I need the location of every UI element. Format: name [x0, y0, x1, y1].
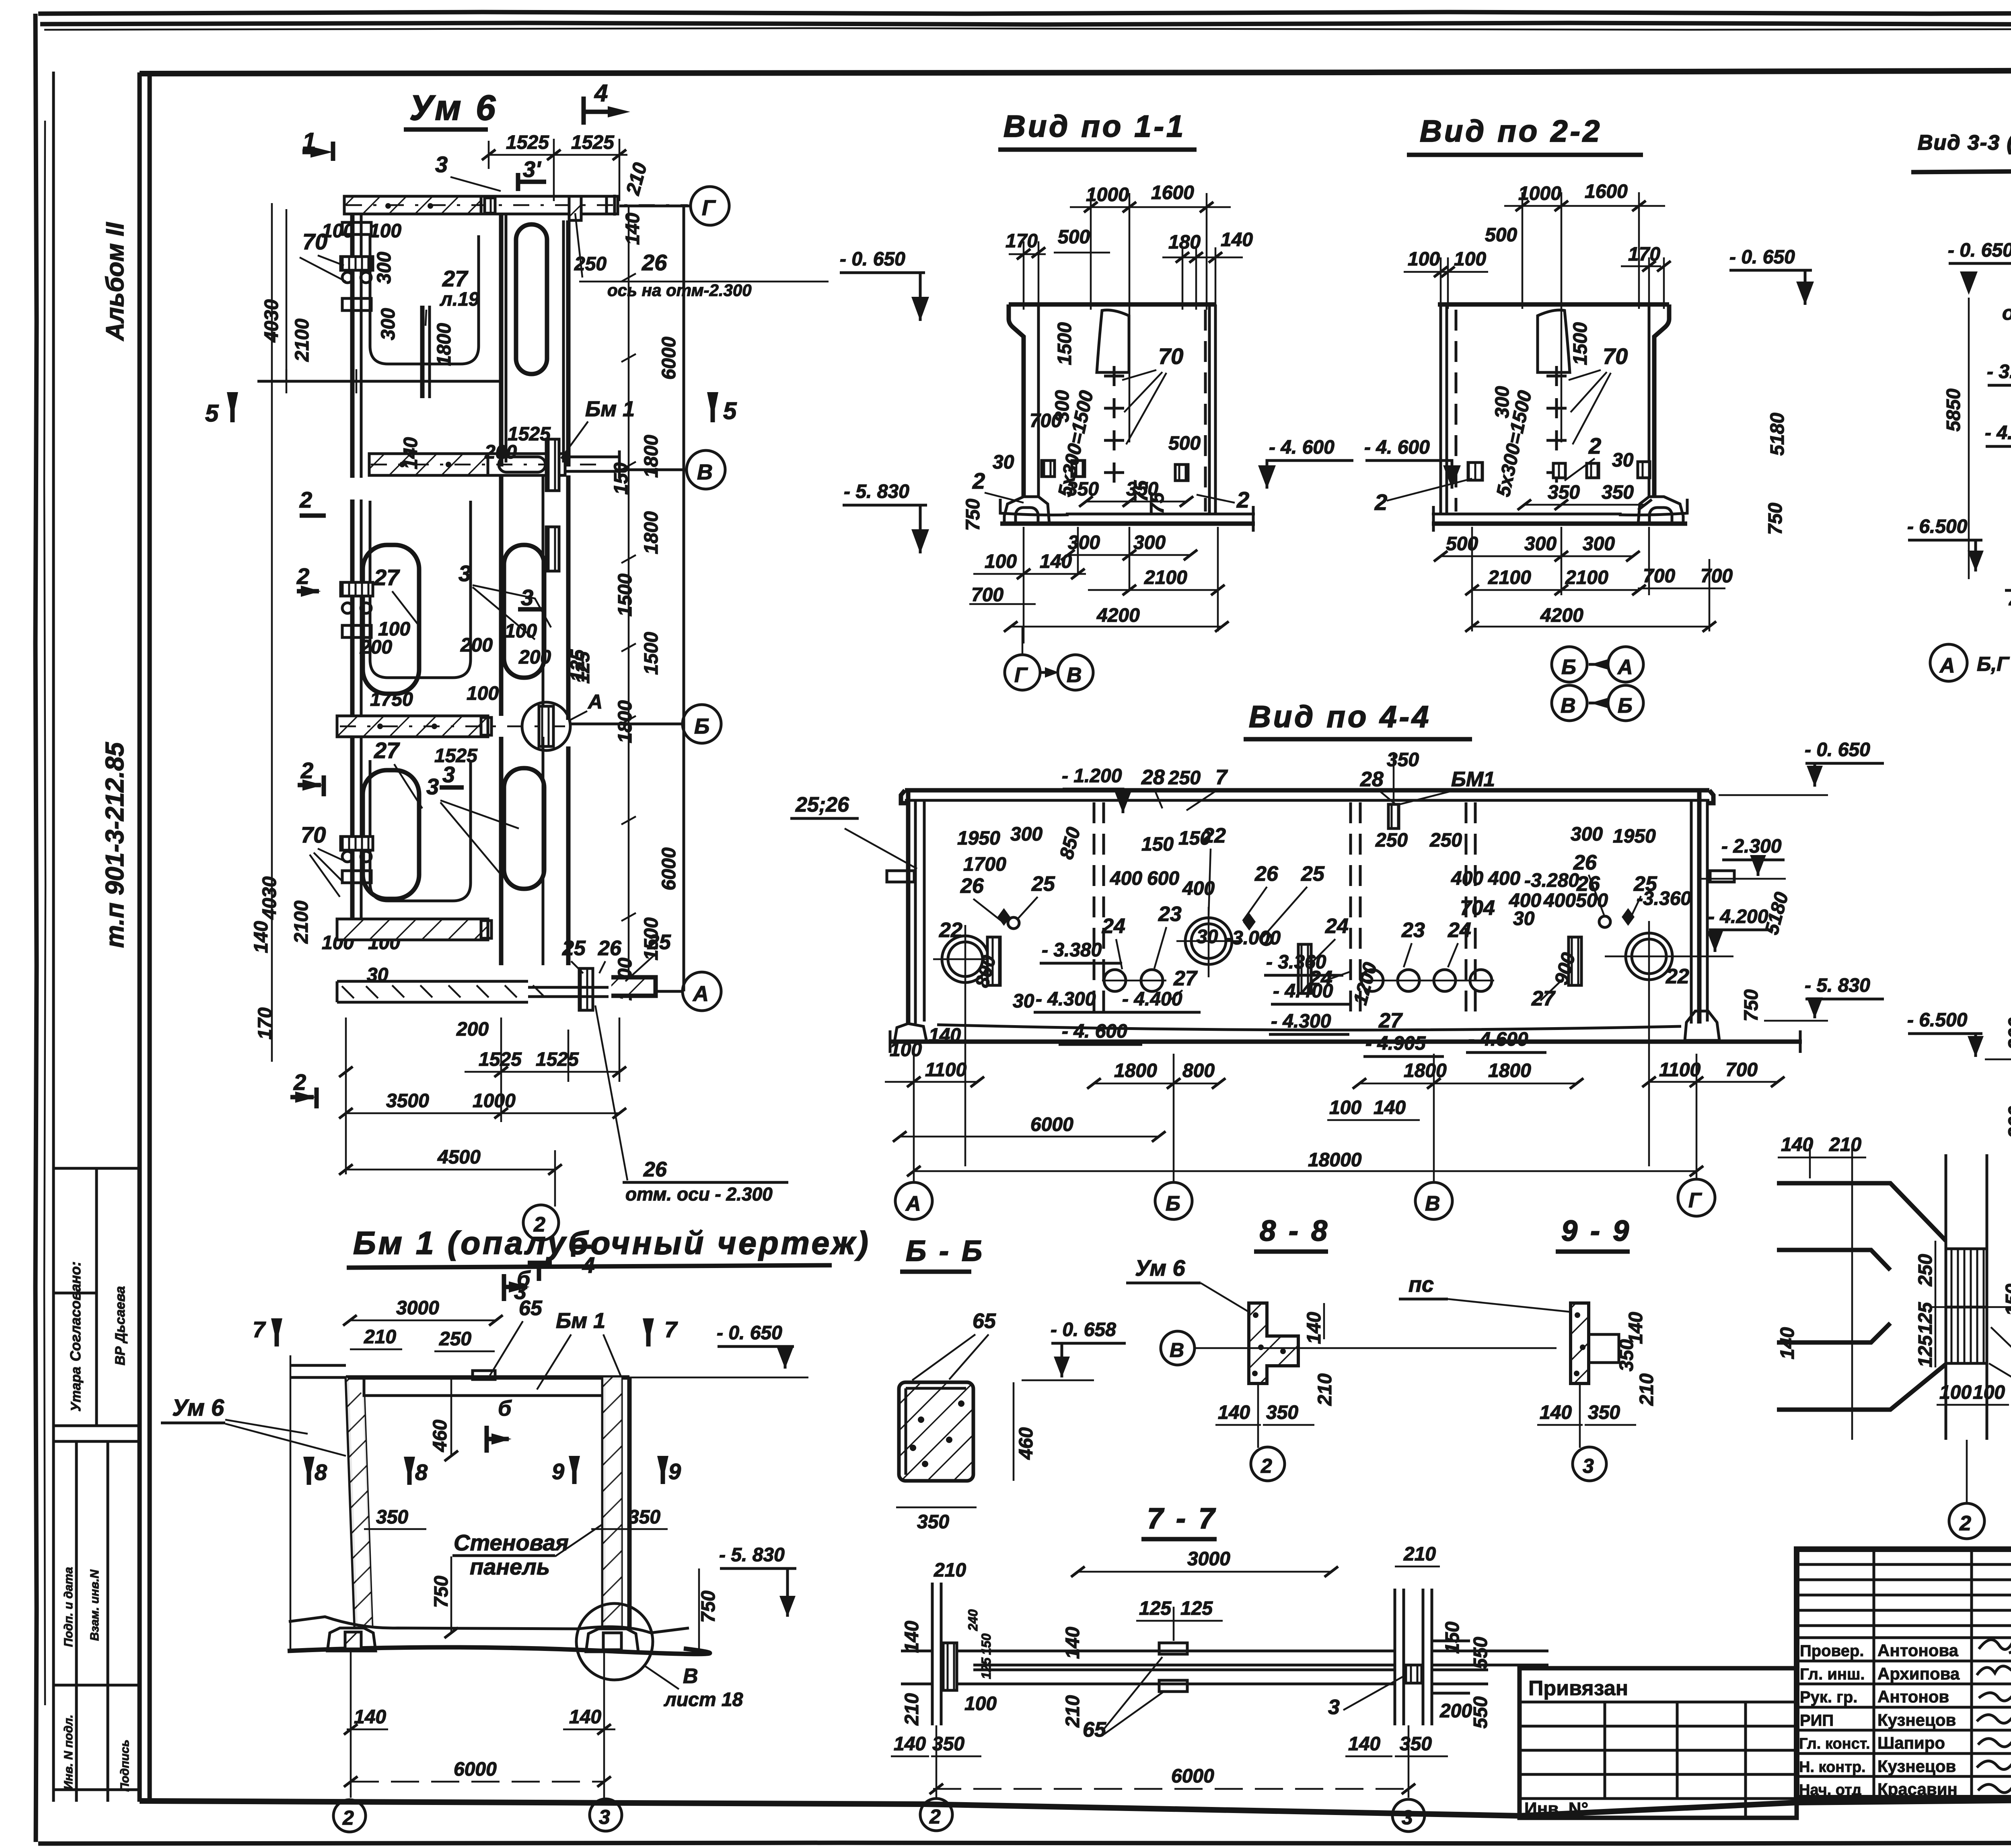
svg-text:Г: Г: [702, 196, 716, 220]
right wall dashed + solid: [1204, 310, 1207, 512]
svg-text:140: 140: [569, 1706, 601, 1728]
svg-text:500: 500: [1058, 226, 1090, 248]
svg-text:2: 2: [293, 1069, 306, 1095]
vertical channel lines: [1945, 1154, 1947, 1440]
svg-text:3000: 3000: [1187, 1548, 1230, 1570]
right end wall: [1697, 790, 1702, 1024]
svg-text:4030: 4030: [259, 876, 280, 920]
svg-text:В: В: [1170, 1339, 1184, 1361]
svg-text:1500: 1500: [615, 574, 636, 617]
svg-text:3: 3: [442, 762, 455, 787]
sheet bottom border: [38, 1842, 2011, 1844]
thin top rows: [1797, 1563, 2011, 1566]
left foot pedestal: [327, 1628, 376, 1651]
tank top line: [1009, 302, 1215, 307]
svg-text:25: 25: [1031, 872, 1055, 896]
svg-text:750: 750: [431, 1576, 452, 1608]
left margin outer line: [52, 72, 55, 1802]
svg-text:- 2.300: - 2.300: [1721, 836, 1782, 857]
svg-text:6000: 6000: [1171, 1766, 1214, 1787]
joint pieces at A level: [579, 968, 593, 1010]
svg-text:- 0. 650: - 0. 650: [717, 1322, 782, 1344]
rebar blocks: [987, 937, 1000, 985]
svg-text:1500: 1500: [641, 632, 662, 675]
svg-text:Г: Г: [1014, 664, 1028, 687]
svg-text:3: 3: [599, 1806, 610, 1828]
svg-text:Инв. N подл.: Инв. N подл.: [62, 1714, 75, 1790]
svg-text:3: 3: [459, 561, 471, 586]
svg-text:704: 704: [1460, 896, 1495, 920]
top hatched wall bar: [344, 196, 481, 214]
svg-text:- 0. 658: - 0. 658: [1051, 1319, 1116, 1340]
svg-text:3: 3: [1328, 1696, 1340, 1719]
svg-text:Б: Б: [1166, 1192, 1180, 1215]
svg-text:Кузнецов: Кузнецов: [1877, 1710, 1956, 1729]
svg-text:25: 25: [562, 937, 586, 960]
left end wall: [906, 790, 911, 1024]
svg-text:4200: 4200: [1096, 605, 1140, 626]
svg-text:8: 8: [415, 1459, 428, 1485]
svg-text:3: 3: [521, 585, 533, 610]
svg-text:4 шт: 4 шт: [2009, 590, 2011, 613]
mid hatched beam bar (V level): [369, 454, 488, 475]
left wall (solid+dashed): [1439, 304, 1442, 513]
rebar plus marks: [1546, 366, 1567, 483]
svg-text:460: 460: [1016, 1427, 1037, 1460]
svg-text:3': 3': [523, 156, 541, 182]
svg-text:1950: 1950: [1613, 826, 1656, 847]
axis circles 2 3: [333, 1800, 366, 1832]
svg-text:140: 140: [1781, 1134, 1813, 1155]
top-left outer step lines: [290, 1365, 346, 1377]
svg-text:-3.000: -3.000: [1226, 927, 1281, 949]
svg-text:Шапиро: Шапиро: [1877, 1733, 1945, 1752]
svg-text:250: 250: [1429, 830, 1462, 851]
svg-text:140: 140: [1374, 1097, 1406, 1118]
svg-text:- 3.200: - 3.200: [1987, 361, 2011, 382]
svg-text:350: 350: [376, 1507, 408, 1528]
svg-text:9 - 9: 9 - 9: [1561, 1215, 1631, 1247]
right pipe stub: [1710, 871, 1734, 882]
svg-text:210: 210: [1829, 1134, 1861, 1155]
svg-text:- 5. 830: - 5. 830: [844, 481, 909, 502]
svg-text:400: 400: [1543, 890, 1576, 911]
svg-text:150: 150: [2002, 1284, 2011, 1316]
svg-text:- 4. 600: - 4. 600: [1364, 437, 1430, 458]
svg-text:27: 27: [442, 266, 469, 291]
dimension tick slashes: [1434, 201, 1716, 632]
svg-text:Рук. гр.: Рук. гр.: [1800, 1688, 1857, 1706]
svg-text:26: 26: [1573, 851, 1597, 874]
svg-text:140: 140: [1221, 229, 1253, 251]
inner frame top: [140, 69, 2011, 74]
svg-text:Бм 1: Бм 1: [585, 397, 635, 421]
svg-text:- 4.300: - 4.300: [1036, 989, 1096, 1010]
svg-text:125: 125: [1915, 1335, 1936, 1367]
svg-text:Подп. и дата: Подп. и дата: [62, 1567, 75, 1647]
right footing pedestal: [1638, 497, 1683, 524]
svg-text:Красавин: Красавин: [1877, 1780, 1958, 1799]
svg-text:350: 350: [1266, 1402, 1298, 1423]
left signature table columns: [1873, 1549, 1875, 1800]
svg-text:5: 5: [205, 400, 219, 427]
svg-text:300: 300: [1010, 824, 1043, 845]
svg-text:9: 9: [668, 1459, 681, 1484]
axis circle G: [691, 187, 729, 225]
svg-text:600: 600: [1147, 868, 1179, 889]
svg-text:140: 140: [901, 1621, 923, 1653]
svg-text:Архипова: Архипова: [1877, 1664, 1960, 1683]
svg-text:26: 26: [1254, 862, 1279, 886]
small pipe circles: [1104, 970, 1126, 991]
main title block outer: [1797, 1549, 2011, 1798]
svg-text:150: 150: [611, 463, 632, 495]
bottom slab: [1619, 499, 1687, 515]
svg-text:300: 300: [1524, 533, 1557, 555]
svg-text:1000: 1000: [1086, 184, 1129, 206]
rebar plus marks: [1104, 366, 1124, 483]
beam plan bands: [973, 1651, 1395, 1665]
svg-text:Б: Б: [1618, 694, 1633, 717]
svg-text:26: 26: [642, 250, 667, 275]
bottom floor slab: [289, 1617, 689, 1633]
svg-text:панель: панель: [470, 1554, 550, 1579]
svg-text:Провер.: Провер.: [1800, 1642, 1864, 1660]
svg-text:- 4.400: - 4.400: [1122, 989, 1182, 1010]
svg-text:700: 700: [1701, 565, 1733, 587]
svg-text:140: 140: [1304, 1312, 1325, 1344]
svg-text:ВР Дьсаева: ВР Дьсаева: [113, 1286, 128, 1365]
svg-text:В: В: [697, 460, 713, 484]
svg-text:460: 460: [430, 1420, 451, 1452]
svg-text:6000: 6000: [658, 337, 680, 380]
svg-text:65: 65: [973, 1309, 996, 1333]
svg-text:100: 100: [1939, 1382, 1972, 1403]
svg-text:300: 300: [374, 252, 395, 284]
svg-text:2: 2: [972, 468, 985, 493]
svg-text:- 4.905: - 4.905: [1365, 1033, 1426, 1054]
svg-text:100: 100: [378, 619, 410, 640]
svg-text:150: 150: [979, 1633, 993, 1655]
svg-text:1500: 1500: [1054, 322, 1075, 365]
svg-text:Взам. инв.N: Взам. инв.N: [88, 1569, 101, 1641]
svg-text:70: 70: [1158, 343, 1183, 369]
svg-text:2100: 2100: [1488, 567, 1531, 588]
detail circle at right foot: [576, 1603, 653, 1680]
right wall profile: [1654, 304, 1669, 497]
right foot pedestal: [586, 1629, 638, 1652]
svg-text:22: 22: [939, 919, 962, 942]
svg-text:24: 24: [1448, 919, 1471, 942]
floor line at mid: [257, 380, 503, 383]
svg-text:2100: 2100: [1565, 567, 1608, 588]
svg-text:240: 240: [966, 1609, 980, 1631]
dim 350 below: [896, 1507, 977, 1509]
svg-text:30: 30: [1197, 926, 1218, 948]
svg-text:9: 9: [552, 1459, 564, 1484]
bottom slab band with letters: [337, 980, 528, 983]
left thin column 2: [350, 500, 355, 716]
svg-text:550: 550: [1470, 1696, 1491, 1729]
svg-text:200: 200: [456, 1019, 489, 1040]
svg-text:8: 8: [315, 1459, 327, 1485]
svg-text:100: 100: [369, 220, 401, 242]
svg-text:В: В: [683, 1665, 698, 1688]
svg-text:200: 200: [1439, 1700, 1472, 1722]
svg-text:2: 2: [1588, 433, 1601, 458]
bottom slab: [1000, 499, 1069, 515]
svg-text:750: 750: [1741, 989, 1762, 1022]
svg-text:200: 200: [460, 635, 493, 656]
slab 3 with slot (B..A): [499, 737, 504, 965]
svg-text:А: А: [587, 691, 602, 713]
svg-text:лист 18: лист 18: [664, 1689, 743, 1710]
svg-text:А: А: [905, 1192, 921, 1215]
svg-text:750: 750: [962, 499, 984, 531]
svg-text:350: 350: [1126, 479, 1158, 500]
bolt detail on top bar: [485, 198, 495, 213]
dimension tick slashes: [929, 1566, 1415, 1794]
svg-text:1700: 1700: [963, 854, 1006, 875]
dimension tick slashes: [343, 1315, 611, 1787]
axis circles B <- A: [1552, 647, 1587, 682]
section mark b top: [502, 1274, 506, 1301]
svg-text:100: 100: [1454, 249, 1486, 270]
hatched square section: [899, 1382, 973, 1481]
svg-text:1600: 1600: [1151, 182, 1194, 204]
svg-text:7: 7: [664, 1317, 678, 1342]
svg-text:6000: 6000: [454, 1759, 497, 1780]
svg-text:26: 26: [643, 1158, 667, 1181]
svg-text:140: 140: [400, 437, 422, 469]
anchor blocks: [1042, 460, 1055, 477]
svg-text:30: 30: [1612, 450, 1634, 471]
inner frame: double left edge: [138, 72, 142, 1802]
svg-text:700: 700: [1725, 1059, 1758, 1081]
svg-text:Кузнецов: Кузнецов: [1877, 1757, 1956, 1776]
svg-text:3500: 3500: [386, 1090, 429, 1112]
svg-text:350: 350: [917, 1511, 949, 1533]
svg-text:100: 100: [322, 220, 354, 242]
svg-text:100: 100: [964, 1693, 997, 1714]
svg-text:- 6.500: - 6.500: [1907, 1009, 1968, 1031]
svg-text:300: 300: [1583, 533, 1615, 555]
svg-text:150: 150: [1442, 1622, 1463, 1654]
svg-text:1950: 1950: [957, 828, 1000, 849]
svg-text:2: 2: [1374, 489, 1387, 515]
svg-text:1800: 1800: [1114, 1060, 1157, 1081]
svg-text:Согласовано:: Согласовано:: [67, 1261, 84, 1361]
svg-text:210: 210: [1314, 1373, 1336, 1406]
svg-text:2: 2: [1260, 1455, 1272, 1477]
B level hatched bar: [337, 716, 488, 737]
svg-text:25: 25: [647, 931, 671, 954]
right column crossing: [1395, 1589, 1404, 1725]
sheet outer border top (rough double line): [38, 12, 2011, 14]
interior top inner line: [372, 1394, 603, 1397]
axis circle V: [687, 450, 725, 489]
svg-text:пс: пс: [1409, 1272, 1434, 1297]
svg-text:Альбом II: Альбом II: [101, 222, 129, 341]
svg-text:26: 26: [598, 937, 622, 960]
inner frame bottom: [140, 1795, 2011, 1816]
svg-text:-3.360: -3.360: [1637, 888, 1691, 909]
svg-text:700: 700: [1643, 565, 1675, 587]
svg-text:1000: 1000: [1518, 183, 1561, 204]
svg-text:140: 140: [251, 921, 272, 953]
svg-text:7 - 7: 7 - 7: [1147, 1503, 1217, 1535]
svg-text:140: 140: [894, 1733, 926, 1755]
svg-text:Вид по 2-2: Вид по 2-2: [1420, 114, 1602, 148]
left wall hatched slightly tilted: [347, 1377, 356, 1628]
svg-text:300: 300: [378, 308, 399, 340]
svg-text:7: 7: [253, 1317, 266, 1342]
axis circle B (mid low): [683, 705, 721, 743]
axis circle V with long line: [1161, 1331, 1195, 1365]
svg-text:Б - Б: Б - Б: [906, 1235, 985, 1267]
svg-text:Нач. отд: Нач. отд: [1799, 1782, 1861, 1799]
svg-text:350: 350: [1616, 1339, 1637, 1371]
left pipe stub: [887, 871, 914, 882]
dimension tick slashes: [893, 1077, 1785, 1176]
svg-text:140: 140: [929, 1025, 961, 1046]
wall section hatched with stub: [1571, 1303, 1589, 1383]
svg-text:- 4.600: - 4.600: [1468, 1029, 1528, 1050]
svg-text:- 0. 650: - 0. 650: [1805, 739, 1870, 761]
svg-text:250: 250: [1168, 767, 1201, 789]
svg-text:4: 4: [594, 80, 608, 107]
svg-text:отв.ф200: отв.ф200: [2002, 302, 2011, 324]
wall section hatched with step: [1249, 1303, 1298, 1383]
svg-text:350: 350: [1067, 479, 1099, 500]
svg-text:1800: 1800: [641, 511, 662, 554]
sheet outer border left (rough): [35, 14, 37, 1842]
svg-text:25: 25: [1301, 862, 1325, 886]
svg-text:1100: 1100: [925, 1059, 967, 1081]
svg-text:400: 400: [1110, 868, 1142, 889]
svg-text:500: 500: [1485, 224, 1517, 246]
svg-text:В: В: [1425, 1192, 1440, 1215]
svg-text:Б: Б: [1561, 656, 1576, 679]
svg-text:Бм 1: Бм 1: [556, 1309, 605, 1333]
svg-text:140: 140: [354, 1706, 386, 1728]
svg-text:100: 100: [1973, 1382, 2005, 1403]
svg-text:Ум 6: Ум 6: [172, 1395, 224, 1421]
svg-text:1525: 1525: [571, 132, 615, 153]
svg-text:А: А: [692, 982, 709, 1006]
svg-text:400: 400: [1451, 868, 1483, 889]
svg-text:1800: 1800: [641, 435, 662, 478]
svg-text:- 4.700: - 4.700: [1985, 422, 2011, 444]
svg-text:140: 140: [1777, 1327, 1798, 1359]
interior dashed walls: [1093, 802, 1096, 1022]
svg-text:4500: 4500: [437, 1147, 481, 1168]
svg-text:Вид по 4-4: Вид по 4-4: [1249, 700, 1431, 734]
svg-text:- 3.380: - 3.380: [1042, 939, 1102, 961]
svg-text:200: 200: [518, 647, 551, 668]
svg-text:200: 200: [2005, 1018, 2011, 1050]
svg-text:350: 350: [1588, 1402, 1620, 1423]
svg-text:2: 2: [299, 487, 312, 512]
svg-text:27: 27: [374, 565, 400, 590]
svg-text:- 4.400: - 4.400: [1273, 981, 1333, 1002]
svg-text:Б: Б: [694, 714, 709, 738]
svg-text:Бм 1 (опалубочный чертеж): Бм 1 (опалубочный чертеж): [353, 1225, 871, 1261]
left margin table lines: [53, 1167, 140, 1170]
svg-text:б: б: [498, 1396, 512, 1420]
svg-text:Подпись: Подпись: [118, 1739, 132, 1792]
left thin column 1: [350, 214, 355, 478]
svg-text:8 - 8: 8 - 8: [1260, 1215, 1330, 1247]
svg-text:А: А: [1939, 654, 1955, 677]
svg-text:300: 300: [1133, 532, 1166, 553]
svg-text:700: 700: [1030, 410, 1062, 432]
axis circles 2 3: [920, 1799, 952, 1831]
svg-text:100: 100: [505, 621, 537, 642]
svg-text:24: 24: [1325, 915, 1349, 938]
svg-text:Гл. инш.: Гл. инш.: [1800, 1665, 1865, 1683]
svg-text:- 4.300: - 4.300: [1271, 1011, 1331, 1032]
hatched block: [1946, 1249, 1987, 1363]
axis circles A B V G: [895, 1182, 932, 1219]
axis circle 3: [1573, 1447, 1606, 1481]
svg-text:350: 350: [628, 1507, 660, 1528]
svg-text:250: 250: [1375, 830, 1408, 851]
svg-text:210: 210: [901, 1693, 923, 1726]
svg-text:23: 23: [1158, 902, 1182, 926]
slab 2 with slot (V..B): [499, 475, 504, 716]
svg-text:1500: 1500: [1570, 322, 1591, 365]
svg-text:700: 700: [971, 584, 1003, 606]
svg-text:210: 210: [1403, 1544, 1436, 1565]
svg-text:125: 125: [1139, 1598, 1172, 1619]
svg-text:140: 140: [1348, 1733, 1380, 1755]
svg-text:200: 200: [2005, 1106, 2011, 1139]
svg-text:70: 70: [1603, 343, 1628, 369]
dim 460 rotated: [1013, 1382, 1015, 1481]
inner hung panel: [1538, 310, 1570, 372]
svg-text:Утара: Утара: [68, 1367, 84, 1412]
dimension tick slashes: [339, 150, 626, 1175]
svg-text:А: А: [1617, 656, 1633, 679]
svg-text:140: 140: [1540, 1402, 1572, 1423]
svg-text:800: 800: [1182, 1060, 1215, 1081]
svg-text:30: 30: [993, 452, 1014, 473]
svg-text:- 4. 600: - 4. 600: [1269, 437, 1334, 458]
svg-text:350: 350: [1602, 482, 1634, 503]
svg-text:В: В: [1067, 664, 1082, 687]
svg-text:27: 27: [1173, 967, 1198, 990]
svg-text:350: 350: [1548, 482, 1580, 503]
svg-text:2: 2: [929, 1805, 941, 1828]
svg-text:18000: 18000: [1308, 1149, 1362, 1171]
svg-text:1600: 1600: [1585, 181, 1628, 202]
svg-text:Стеновая: Стеновая: [454, 1530, 569, 1555]
svg-text:Инв. N°: Инв. N°: [1524, 1799, 1588, 1819]
svg-text:140: 140: [1062, 1627, 1084, 1659]
axis circle A (bottom): [683, 972, 721, 1011]
svg-text:200: 200: [484, 442, 517, 463]
svg-text:3000: 3000: [396, 1297, 439, 1319]
left end cross detail: [932, 1583, 941, 1725]
anchor blocks: [1468, 463, 1483, 480]
svg-text:100: 100: [1408, 249, 1440, 270]
svg-text:- 1.200: - 1.200: [1062, 765, 1122, 787]
svg-text:750: 750: [1765, 503, 1786, 535]
right wall hatched: [601, 1377, 606, 1629]
svg-text:500: 500: [1168, 433, 1201, 454]
svg-text:6000: 6000: [1030, 1114, 1073, 1135]
